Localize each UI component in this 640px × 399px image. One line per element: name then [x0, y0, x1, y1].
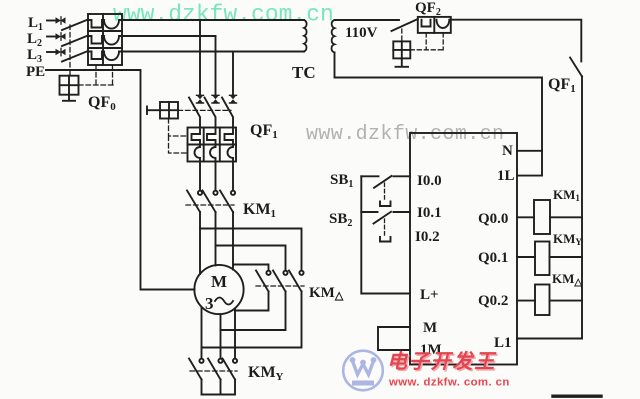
logo circle W: [343, 351, 383, 391]
KM delta linkage dashed: [256, 285, 304, 287]
transformer TC secondary winding: [331, 20, 334, 53]
wire KMdelta pole3 to winding: [202, 292, 302, 348]
QF0 disconnect blade pole 1: [62, 20, 88, 31]
QF0 disconnect blade pole 3: [62, 51, 88, 62]
coil KMY: [535, 242, 550, 276]
QF1 pole3 elements: [225, 128, 234, 162]
wire KM1 coil to bus: [550, 216, 582, 218]
wire motor winding end 1: [201, 308, 203, 359]
wire delta link C: [233, 265, 269, 271]
QF1 operating mechanism box: [147, 102, 178, 119]
contactor KMY pole 3: [223, 359, 238, 380]
wire QF1 to KM1 pole3: [232, 162, 234, 191]
QF0 operating mechanism box: [60, 76, 79, 101]
QF0 linkage dashed: [69, 25, 71, 76]
wire delta link B: [216, 246, 286, 271]
QF1 pole1 elements: [192, 128, 201, 162]
wire N stub: [517, 150, 542, 152]
wire KMdelta coil to bus: [550, 300, 583, 302]
contactor KM1 pole 2: [203, 191, 218, 213]
SB1 actuator: [380, 183, 391, 206]
svg-text:www.dzkfw.com.cn: www.dzkfw.com.cn: [113, 2, 334, 28]
wire KM1 pole2 to motor: [215, 212, 217, 266]
contactor KM1 pole 1: [187, 191, 202, 213]
wire secondary top to QF2: [335, 19, 400, 21]
breaker QF1 aux contact: [570, 58, 582, 77]
wire delta link A: [200, 229, 302, 271]
wire M to 1M jumper: [378, 327, 410, 350]
coil KM1: [534, 200, 550, 234]
wire KMY coil to bus: [550, 256, 583, 258]
pushbutton SB1: [361, 176, 410, 188]
svg-text:L1: L1: [494, 335, 512, 351]
svg-text:PE: PE: [26, 64, 45, 80]
wire Q0.0 stub: [517, 216, 534, 218]
wire L2 bus: [122, 35, 216, 37]
svg-text:Q0.2: Q0.2: [478, 293, 508, 309]
wire L1 bus: [122, 19, 304, 21]
contactor KM1 pole 3: [220, 191, 235, 213]
wire L3 bus: [122, 51, 304, 53]
KMY linkage dashed: [190, 370, 237, 372]
wire L1 stub to bus bottom: [517, 338, 582, 340]
QF1 drawout symbol pole 1: [197, 95, 204, 103]
svg-text:TC: TC: [292, 63, 316, 82]
wire drop phase A: [199, 20, 201, 95]
QF1 linkage dashed: [178, 109, 231, 111]
svg-text:www. dzkfw. com. cn: www. dzkfw. com. cn: [388, 377, 510, 389]
PLC box: [410, 133, 517, 365]
breaker QF1 block: [188, 128, 237, 162]
svg-text:I0.0: I0.0: [417, 173, 442, 189]
wire QF1 to KM1 pole2: [215, 162, 217, 191]
svg-text:I0.1: I0.1: [417, 205, 442, 221]
QF0 disconnect blade pole 2: [62, 36, 88, 47]
QF1 drawout symbol pole 3: [230, 95, 237, 103]
wire drop phase B: [215, 36, 217, 95]
svg-text:110V: 110V: [345, 25, 378, 41]
QF1 blade pole 1: [189, 98, 200, 128]
wire KM1 pole1 to motor: [199, 212, 201, 274]
QF2 trip linkage dashed: [410, 33, 443, 50]
wire motor winding end 3: [234, 310, 236, 359]
svg-text:电子开发王: 电子开发王: [387, 350, 497, 373]
svg-text:www.dzkfw.com.cn: www.dzkfw.com.cn: [306, 123, 504, 146]
wire secondary bottom / neutral run: [335, 53, 543, 176]
wire motor winding end 2: [220, 315, 222, 359]
contactor KMY pole 1: [189, 359, 204, 380]
svg-text:1L: 1L: [497, 168, 515, 184]
pushbutton SB2: [361, 212, 410, 224]
QF1 drawout symbol pole 2: [212, 95, 219, 103]
svg-text:Q0.1: Q0.1: [478, 250, 508, 266]
breaker QF2 block: [418, 17, 451, 33]
wire KM1 pole3 to motor: [232, 212, 234, 270]
wire QF2 to right bus: [451, 20, 582, 62]
KM1 linkage dashed: [186, 204, 234, 206]
QF0 pole1 thermal+magnetic elements: [88, 20, 122, 29]
breaker QF0 block: [88, 14, 122, 65]
contactor KM delta pole 3: [289, 271, 304, 292]
QF1 blade pole 2: [205, 98, 216, 128]
svg-text:N: N: [502, 143, 513, 159]
QF2 thermal+magnetic elements: [422, 20, 450, 28]
wire QF1 to KM1 pole1: [199, 162, 201, 191]
motor M: [194, 265, 243, 314]
L2 incoming arrow: [47, 33, 66, 40]
wire Q0.2 stub: [517, 300, 535, 302]
breaker QF2 switch blade: [392, 19, 418, 31]
wire KMdelta pole1 to winding: [235, 292, 269, 311]
contactor KMY pole 2: [208, 359, 223, 380]
wire KMdelta pole2 to winding: [221, 292, 286, 331]
QF1 pole2 elements: [207, 128, 216, 162]
svg-text:3: 3: [205, 294, 214, 313]
coil KM delta: [535, 285, 550, 316]
svg-text:M: M: [423, 320, 437, 336]
contactor KM delta pole 2: [273, 271, 288, 292]
svg-text:M: M: [211, 272, 227, 291]
QF2 operating mechanism box: [393, 41, 410, 66]
L1 incoming arrow: [47, 17, 66, 24]
bottom right partial box: [553, 395, 601, 398]
QF0 pole3 thermal+magnetic elements: [88, 52, 122, 61]
L3 incoming arrow: [47, 48, 66, 55]
QF0 pole2 thermal+magnetic elements: [88, 36, 122, 45]
svg-text:I0.2: I0.2: [415, 229, 440, 245]
svg-text:L+: L+: [420, 287, 439, 303]
wire input common bus: [361, 176, 410, 293]
SB2 actuator: [380, 219, 391, 242]
wire 1L stub: [517, 175, 542, 177]
transformer TC primary winding: [304, 20, 307, 52]
wire star point: [202, 380, 236, 395]
svg-text:Q0.0: Q0.0: [478, 211, 508, 227]
QF1 blade pole 3: [222, 98, 233, 128]
wire Q0.1 stub: [517, 256, 535, 258]
wire drop phase C: [232, 52, 234, 96]
contactor KM delta pole 1: [256, 271, 271, 292]
QF2 actuator dashed: [401, 29, 403, 41]
QF0 trip linkage dashed: [79, 84, 114, 86]
wire right bus down: [581, 76, 583, 338]
wire PE run: [46, 70, 195, 290]
